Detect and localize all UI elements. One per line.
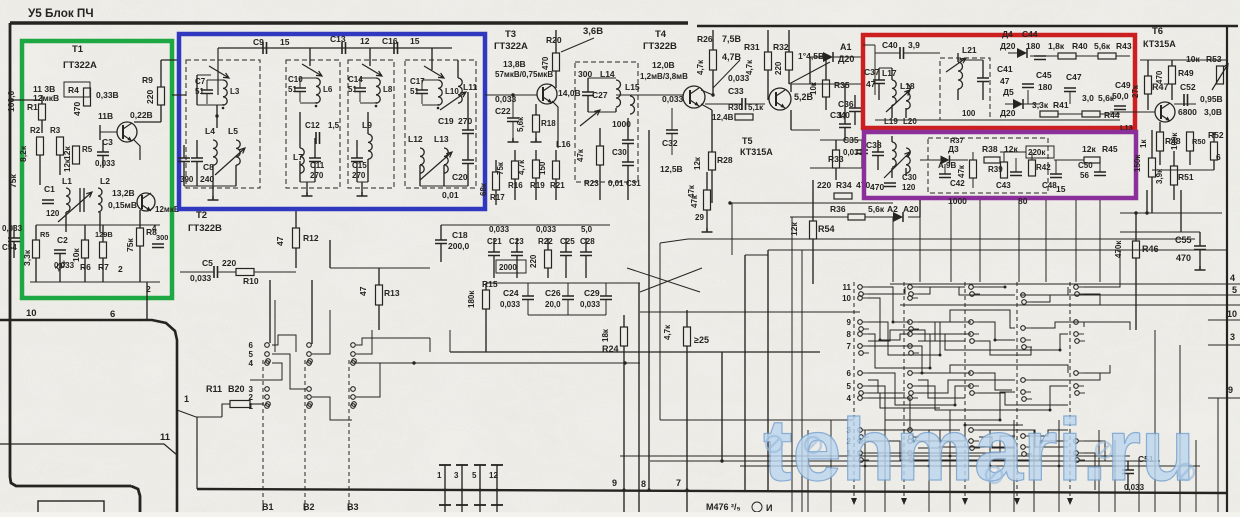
svg-text:4,7В: 4,7В [722, 52, 742, 62]
wire T4 emitter lead [701, 104, 712, 110]
resistor R22 [545, 250, 552, 268]
svg-text:1: 1 [437, 471, 442, 480]
svg-text:L6: L6 [323, 85, 333, 94]
capacitor C54 left [8, 238, 20, 242]
wires T5 area [790, 84, 792, 92]
svg-text:R30: R30 [728, 103, 743, 112]
svg-text:180: 180 [1026, 41, 1040, 51]
pin 9 line [1208, 397, 1240, 399]
bottom main bus [197, 489, 1227, 493]
wire into filter [217, 48, 219, 95]
main coupling wire left [172, 94, 186, 96]
svg-text:12,0В: 12,0В [652, 60, 675, 70]
svg-text:470: 470 [72, 102, 82, 116]
svg-text:270: 270 [310, 171, 324, 180]
svg-text:R49: R49 [1178, 68, 1194, 78]
wires purple coils [877, 140, 879, 152]
svg-text:220: 220 [529, 254, 538, 268]
svg-text:9: 9 [612, 478, 617, 488]
wire V20 to contact [250, 403, 264, 405]
trimmer purple coil [884, 152, 910, 178]
trimmer L13 [420, 152, 452, 180]
svg-text:180к: 180к [467, 290, 476, 308]
svg-text:R12: R12 [303, 233, 319, 243]
svg-text:4,7к: 4,7к [517, 159, 526, 175]
svg-text:9: 9 [1228, 385, 1233, 395]
wire R13 [378, 268, 380, 285]
svg-text:С49: С49 [1115, 80, 1131, 90]
svg-text:15: 15 [410, 36, 420, 46]
svg-text:L5: L5 [228, 126, 238, 136]
switch wafer B4 contacts [858, 285, 863, 290]
capacitor C24 [522, 296, 534, 300]
svg-text:R10: R10 [243, 276, 259, 286]
svg-text:С29: С29 [584, 288, 600, 298]
svg-text:0,033: 0,033 [580, 300, 601, 309]
switch wafer B5 dashed axis [903, 282, 905, 500]
svg-text:Д20: Д20 [1000, 41, 1016, 51]
wire T3 emitter lead [552, 101, 558, 148]
svg-text:А2: А2 [887, 204, 898, 214]
svg-text:1: 1 [249, 402, 254, 411]
svg-text:R5: R5 [82, 145, 93, 154]
svg-text:А,9В: А,9В [938, 161, 956, 170]
svg-text:11: 11 [843, 283, 852, 292]
svg-text:13,2В: 13,2В [112, 188, 135, 198]
svg-text:L10: L10 [445, 87, 459, 96]
wire vert 792 [791, 217, 793, 512]
wires R35 C36 [825, 57, 827, 80]
svg-text:А1: А1 [840, 42, 852, 52]
red highlight box [863, 35, 1135, 128]
svg-text:0,95В: 0,95В [1200, 94, 1223, 104]
svg-text:51: 51 [348, 85, 357, 94]
inductor L8 [376, 78, 380, 103]
svg-text:С1: С1 [44, 184, 55, 194]
svg-text:220: 220 [222, 258, 236, 268]
capacitor C29 [600, 296, 612, 300]
svg-text:R20: R20 [546, 35, 562, 45]
svg-text:470: 470 [870, 182, 884, 192]
svg-text:R54: R54 [818, 224, 835, 234]
mid verticals [638, 283, 640, 512]
ground R29 [702, 228, 713, 232]
svg-text:51: 51 [288, 85, 297, 94]
svg-text:10: 10 [842, 294, 851, 303]
svg-text:R45: R45 [1102, 144, 1118, 154]
wires purple net [920, 159, 945, 161]
svg-text:С25: С25 [560, 237, 575, 246]
svg-text:1°4,5В: 1°4,5В [798, 51, 824, 61]
svg-text:R4: R4 [68, 85, 79, 95]
svg-text:В3: В3 [347, 502, 359, 512]
svg-text:L1: L1 [62, 176, 72, 186]
svg-text:R31: R31 [744, 42, 760, 52]
svg-text:С44: С44 [1022, 29, 1038, 39]
svg-text:R21: R21 [550, 181, 565, 190]
filter output wire [457, 60, 459, 78]
dots L6 [315, 105, 318, 108]
capacitor C25 [560, 252, 572, 256]
svg-text:0,15мВ: 0,15мВ [108, 200, 137, 210]
wire C40 row [875, 52, 900, 54]
svg-text:7: 7 [847, 342, 852, 351]
trimmer arrow L10 [424, 66, 444, 78]
svg-text:5,0: 5,0 [581, 225, 593, 234]
svg-text:470к: 470к [1114, 240, 1123, 258]
svg-text:С32: С32 [662, 138, 678, 148]
svg-text:Д20: Д20 [838, 54, 854, 64]
wire red box input [874, 45, 876, 95]
svg-text:С27: С27 [592, 90, 608, 100]
transistor T2 [137, 193, 155, 211]
svg-text:R28: R28 [717, 155, 733, 165]
svg-text:47: 47 [275, 236, 285, 246]
svg-text:С33: С33 [728, 86, 744, 96]
frame: bottom-left corner drop [131, 486, 140, 512]
svg-text:200,0: 200,0 [448, 241, 470, 251]
svg-text:6: 6 [249, 341, 254, 350]
wire A1 [810, 56, 823, 58]
wire vert 802 [801, 250, 803, 512]
transistor T3 [537, 84, 557, 104]
wires section2 [299, 112, 301, 148]
capacitor 300 [152, 244, 164, 248]
svg-text:С19: С19 [438, 116, 454, 126]
svg-text:ГТ322А: ГТ322А [63, 60, 97, 71]
svg-text:2: 2 [249, 393, 254, 402]
svg-text:R38: R38 [982, 144, 998, 154]
transistor T5 [769, 88, 791, 110]
svg-text:С40: С40 [882, 40, 898, 50]
svg-text:L19: L19 [884, 117, 898, 126]
svg-text:5,6к: 5,6к [1094, 41, 1111, 51]
svg-text:220: 220 [145, 90, 155, 104]
resistor R17 [493, 172, 500, 190]
svg-text:R34: R34 [836, 180, 852, 190]
capacitor C22 [507, 118, 519, 122]
wire vert 197 to bus [196, 417, 198, 489]
trimmer L18 [886, 90, 910, 112]
pin 5 line [1020, 294, 1240, 296]
switch B1 dashed axis [262, 360, 264, 512]
trimmer L5 [215, 148, 245, 175]
svg-text:R15: R15 [482, 279, 498, 289]
svg-text:0,033: 0,033 [500, 300, 521, 309]
dots L3 [222, 107, 225, 110]
bottom crossing dots [807, 465, 810, 468]
svg-text:47к: 47к [576, 148, 585, 162]
svg-text:С38: С38 [866, 140, 882, 150]
frame: top border right segment [697, 25, 1238, 28]
svg-text:5,1к: 5,1к [748, 103, 764, 112]
filter section box 2 [286, 60, 340, 188]
wire R9 top to edge [161, 59, 178, 61]
pin line y305 [900, 304, 1240, 306]
svg-text:0,33В: 0,33В [96, 90, 119, 100]
transistor T4 [683, 86, 705, 108]
svg-text:R51: R51 [1178, 172, 1194, 182]
inductor L6 [316, 78, 320, 103]
svg-text:С26: С26 [545, 288, 561, 298]
resistor R53 [1217, 66, 1224, 84]
svg-text:75к: 75к [8, 174, 18, 188]
capacitor C26 [562, 296, 574, 300]
trimmer arrow L6 [302, 64, 322, 76]
resistor R5 [73, 146, 80, 164]
svg-text:15: 15 [1056, 184, 1066, 194]
wire T1 emitter lead [133, 139, 140, 160]
switch B2 contacts [307, 343, 312, 348]
svg-text:С28: С28 [580, 237, 595, 246]
svg-text:0,033: 0,033 [536, 225, 557, 234]
trimmer arrow L1L2 [58, 192, 92, 222]
svg-text:12к: 12к [693, 156, 702, 170]
inductor L14 coil [616, 80, 621, 107]
svg-text:R35: R35 [834, 80, 850, 90]
wires cluster [493, 238, 495, 252]
resistor R7 [100, 242, 107, 258]
trimmer L14 [580, 110, 600, 126]
svg-text:12,5В: 12,5В [660, 164, 683, 174]
svg-text:R50: R50 [1192, 137, 1206, 146]
svg-text:М476 ²/₅: М476 ²/₅ [706, 502, 741, 512]
svg-text:3,0В: 3,0В [1204, 107, 1222, 117]
trimmer arrow L3 [209, 66, 229, 78]
svg-text:5: 5 [249, 350, 254, 359]
resistor R40 [1058, 53, 1076, 59]
svg-text:270: 270 [458, 116, 472, 126]
svg-text:29: 29 [695, 213, 704, 222]
svg-text:14,0В: 14,0В [558, 88, 581, 98]
svg-text:tehmari.ru: tehmari.ru [763, 400, 1195, 499]
svg-text:3: 3 [454, 471, 459, 480]
matrix junction dots [892, 321, 895, 324]
wire C5 R10 row [180, 271, 214, 273]
wire A2 line [790, 216, 848, 218]
filter top bus [218, 47, 452, 49]
svg-text:4: 4 [249, 359, 254, 368]
dots L8 [375, 105, 378, 108]
svg-text:R41: R41 [1053, 100, 1069, 110]
svg-text:L15: L15 [625, 82, 640, 92]
svg-text:1,5: 1,5 [328, 121, 340, 130]
svg-text:129В: 129В [95, 230, 113, 239]
svg-text:8: 8 [847, 330, 852, 339]
wires section4 [467, 92, 469, 130]
svg-text:С15: С15 [352, 161, 367, 170]
svg-text:220: 220 [817, 180, 831, 190]
svg-text:4: 4 [1230, 273, 1235, 283]
wire bus y239 [660, 239, 1195, 243]
svg-text:С37: С37 [864, 67, 880, 77]
inductor L10 [438, 80, 442, 105]
wire R9 [160, 60, 162, 87]
wires red mid row [1005, 103, 1013, 105]
svg-text:С16: С16 [382, 36, 398, 46]
svg-text:С10: С10 [288, 75, 303, 84]
svg-text:390: 390 [180, 175, 194, 184]
svg-text:Д4: Д4 [1002, 29, 1013, 39]
trimmer L11 [440, 92, 466, 110]
svg-text:Т5: Т5 [742, 136, 753, 146]
ground section1 [212, 186, 214, 196]
filter section box 3 [348, 60, 394, 188]
svg-text:Т4: Т4 [655, 29, 667, 40]
svg-text:В1: В1 [262, 502, 274, 512]
svg-text:6: 6 [847, 369, 852, 378]
bottom-left box outline [38, 501, 104, 515]
thick bus wire 10-6 [0, 320, 177, 512]
svg-text:С11: С11 [310, 161, 325, 170]
svg-text:1,8к: 1,8к [1048, 41, 1065, 51]
svg-text:L17: L17 [882, 68, 897, 78]
wire C51 [1127, 461, 1129, 470]
green box internal wires [65, 212, 67, 232]
svg-text:R47: R47 [1152, 82, 1169, 92]
svg-text:12к: 12к [789, 222, 799, 236]
pin 10 line [1208, 319, 1240, 321]
svg-text:0,033: 0,033 [728, 73, 750, 83]
wires L17 L18 [878, 68, 880, 80]
svg-text:А20: А20 [903, 204, 919, 214]
transistor T6 [1155, 102, 1175, 122]
resistor R6 [82, 240, 89, 258]
resistor R34 [834, 193, 852, 199]
switch wafer B7 bottom arrow [1014, 498, 1020, 505]
svg-text:1: 1 [184, 394, 189, 404]
svg-text:9: 9 [847, 318, 852, 327]
wire callout 4.5V [789, 62, 830, 84]
svg-text:R11: R11 [206, 384, 222, 394]
wire y213 [1120, 212, 1222, 214]
diag crossings mid [627, 268, 700, 292]
svg-text:120: 120 [902, 183, 916, 192]
blue highlight box [179, 34, 485, 209]
svg-text:10к: 10к [809, 81, 818, 95]
wire vert 1181 [1180, 190, 1182, 232]
purple highlight box [864, 132, 1136, 198]
svg-text:2000: 2000 [499, 263, 517, 272]
svg-text:0,01: 0,01 [608, 179, 624, 188]
svg-text:7: 7 [676, 478, 681, 488]
wire vert 768 [767, 250, 769, 490]
wire C18 [440, 225, 442, 240]
svg-text:L18: L18 [900, 81, 915, 91]
wire y461 bottom right [650, 460, 1160, 462]
trimmer arrow L8 [362, 64, 382, 76]
wire 3.6V callout [561, 38, 594, 52]
resistor left 3.3k [33, 240, 40, 258]
blue internal verticals [309, 48, 311, 66]
resistor R4 [84, 88, 91, 106]
verticals bottom right corner [807, 430, 809, 512]
svg-text:180: 180 [1038, 82, 1052, 92]
capacitor C21 [488, 252, 500, 256]
svg-text:С5: С5 [202, 258, 213, 268]
svg-text:С30: С30 [612, 148, 627, 157]
svg-text:R22: R22 [538, 237, 553, 246]
svg-text:18к: 18к [601, 328, 610, 342]
svg-text:Д3: Д3 [948, 144, 959, 154]
svg-text:300: 300 [156, 233, 168, 242]
frame: top border left segment [10, 21, 688, 25]
svg-text:И: И [766, 503, 772, 512]
switch B2 dashed axis [304, 360, 306, 512]
svg-text:15: 15 [280, 37, 290, 47]
svg-text:R1: R1 [27, 102, 38, 112]
wire R29 [706, 172, 708, 190]
wire C18 top corner [449, 330, 451, 352]
svg-text:R33: R33 [828, 154, 844, 164]
svg-text:R17: R17 [490, 193, 505, 202]
wire C3 [102, 140, 104, 152]
resistors R16 R19 R21 [512, 161, 519, 179]
wires section1 top [196, 75, 198, 105]
matrix feeder verticals from top [892, 217, 894, 282]
wire R26 [712, 30, 714, 50]
svg-text:47к: 47к [957, 164, 966, 178]
svg-text:R24: R24 [602, 344, 619, 354]
svg-text:L2: L2 [100, 176, 110, 186]
wire R28 [711, 110, 713, 152]
svg-text:Д5: Д5 [1003, 87, 1014, 97]
svg-text:20,0: 20,0 [545, 300, 561, 309]
svg-text:220: 220 [774, 61, 783, 75]
svg-text:150: 150 [538, 161, 547, 175]
wire R54 [812, 180, 814, 221]
svg-text:11В: 11В [98, 111, 113, 121]
boxed 220k [1026, 146, 1054, 158]
resistor R28 [709, 152, 716, 170]
svg-text:12,4В: 12,4В [712, 113, 734, 122]
svg-text:220к: 220к [1028, 148, 1046, 157]
bus y352 [450, 351, 820, 353]
wire R12 [295, 210, 297, 228]
svg-text:75к: 75к [125, 238, 135, 252]
ground C22 [508, 138, 519, 142]
svg-text:3,3к: 3,3к [1032, 100, 1049, 110]
svg-text:R43: R43 [1116, 41, 1132, 51]
svg-text:0,033: 0,033 [2, 224, 23, 233]
switch wafer B4 bottom arrow [851, 498, 857, 505]
svg-text:С13: С13 [330, 34, 346, 44]
svg-text:R9: R9 [142, 75, 153, 85]
svg-text:3,9: 3,9 [908, 40, 920, 50]
wires T6 bottom [1159, 122, 1161, 132]
svg-text:68к: 68к [479, 182, 488, 196]
resistor R41 [1040, 111, 1058, 117]
svg-text:L12: L12 [408, 134, 423, 144]
svg-text:0,033: 0,033 [190, 273, 212, 283]
resistor R43 [1098, 53, 1116, 59]
wire bus y203 [730, 202, 893, 204]
svg-text:8: 8 [641, 479, 646, 489]
svg-text:240: 240 [200, 174, 214, 184]
main wire into T3 [485, 94, 537, 96]
trimmer R53 [1212, 64, 1228, 90]
watermark tehmari.ru [763, 400, 1195, 499]
svg-text:Т3: Т3 [505, 29, 516, 40]
green highlight box [22, 41, 172, 298]
svg-text:Т6: Т6 [1152, 26, 1163, 37]
svg-text:7,5В: 7,5В [722, 34, 742, 44]
ground R18 [531, 138, 542, 142]
wire y466 bottom [740, 465, 1200, 467]
svg-text:10к: 10к [1186, 54, 1200, 64]
svg-text:С54: С54 [2, 243, 17, 252]
svg-text:Т1: Т1 [72, 44, 84, 55]
